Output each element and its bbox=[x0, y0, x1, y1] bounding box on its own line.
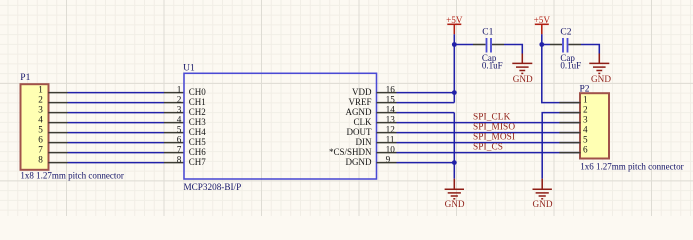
svg-text:VDD: VDD bbox=[352, 87, 372, 97]
power symbol +5V (rail 2) bbox=[534, 15, 551, 34]
svg-text:SPI_MISO: SPI_MISO bbox=[473, 122, 515, 132]
svg-text:5: 5 bbox=[583, 134, 588, 144]
svg-text:MCP3208-BI/P: MCP3208-BI/P bbox=[184, 182, 242, 192]
power symbol +5V (rail 1) bbox=[446, 15, 463, 34]
capacitor C1 pin 2 bbox=[492, 44, 504, 46]
wire VREF to +5V rail bbox=[397, 102, 455, 104]
svg-text:*CS/SHDN: *CS/SHDN bbox=[329, 147, 372, 157]
U1 pin 5 stub bbox=[164, 132, 184, 134]
svg-text:CH1: CH1 bbox=[189, 97, 206, 107]
svg-text:DOUT: DOUT bbox=[347, 127, 372, 137]
svg-text:0.1uF: 0.1uF bbox=[482, 61, 503, 71]
svg-text:3: 3 bbox=[583, 114, 588, 124]
svg-text:GND: GND bbox=[533, 199, 553, 209]
U1 pin 13 stub bbox=[377, 122, 397, 124]
wire C2 to GND bbox=[581, 45, 599, 54]
capacitor C1 plates bbox=[487, 38, 492, 53]
wire P1.4 to U1 CH3 bbox=[68, 122, 165, 124]
ground symbol (P2 pin2) bbox=[533, 179, 553, 210]
wire VDD to +5V rail bbox=[397, 92, 455, 94]
svg-text:CH6: CH6 bbox=[189, 147, 207, 157]
svg-text:C1: C1 bbox=[482, 28, 493, 38]
wire P1.2 to U1 CH1 bbox=[68, 102, 165, 104]
U1 pin 15 stub bbox=[377, 102, 397, 104]
wire rail1 to C1 bbox=[454, 44, 473, 46]
op chip U1 body bbox=[184, 73, 377, 179]
svg-text:GND: GND bbox=[591, 74, 611, 84]
svg-text:8: 8 bbox=[38, 154, 43, 164]
svg-text:CH7: CH7 bbox=[189, 157, 207, 167]
svg-text:7: 7 bbox=[38, 144, 43, 154]
svg-text:DIN: DIN bbox=[356, 137, 372, 147]
svg-text:8: 8 bbox=[177, 154, 182, 164]
wire rail2 to C2 bbox=[542, 44, 550, 46]
svg-text:CH3: CH3 bbox=[189, 117, 207, 127]
svg-text:GND: GND bbox=[445, 199, 465, 209]
svg-text:2: 2 bbox=[583, 104, 588, 114]
P1 pin 5 stub bbox=[48, 132, 67, 134]
wire AGND to ground rail bbox=[397, 112, 455, 114]
P1 pin 4 stub bbox=[48, 122, 67, 124]
P1 pin 1 stub bbox=[48, 92, 67, 94]
U1 pin 16 stub bbox=[377, 92, 397, 94]
svg-text:5: 5 bbox=[38, 124, 43, 134]
U1 pin 2 stub bbox=[164, 102, 184, 104]
P2 pin 1 stub bbox=[559, 102, 580, 104]
wire SPI_CLK net: U1.13 to P2.3 bbox=[397, 122, 580, 124]
wire SPI_MISO net: U1.12 to P2.4 bbox=[397, 132, 580, 134]
svg-text:4: 4 bbox=[177, 114, 182, 124]
svg-text:1: 1 bbox=[38, 84, 43, 94]
ground symbol (C2) bbox=[589, 54, 611, 85]
U1 pin 14 stub bbox=[377, 112, 397, 114]
capacitor C2 pin 1 bbox=[550, 44, 562, 46]
P2 pin 6 stub bbox=[559, 152, 580, 154]
svg-text:SPI_CS: SPI_CS bbox=[473, 142, 503, 152]
wire P1.6 to U1 CH5 bbox=[68, 142, 165, 144]
svg-text:CH2: CH2 bbox=[189, 107, 206, 117]
svg-text:C2: C2 bbox=[560, 28, 571, 38]
svg-text:1: 1 bbox=[177, 84, 182, 94]
junction node VDD bbox=[452, 90, 457, 95]
svg-text:2: 2 bbox=[177, 94, 182, 104]
wire P2 pin2 to ground bbox=[542, 113, 579, 179]
svg-text:3: 3 bbox=[177, 104, 182, 114]
wire P1.1 to U1 CH0 bbox=[68, 92, 165, 94]
svg-text:4: 4 bbox=[38, 114, 43, 124]
junction node DGND bbox=[452, 160, 457, 165]
P1 pin 2 stub bbox=[48, 102, 67, 104]
ground symbol (C1) bbox=[512, 54, 533, 85]
U1 pin 10 stub bbox=[377, 152, 397, 154]
capacitor C2 plates bbox=[563, 38, 568, 53]
svg-text:0.1uF: 0.1uF bbox=[560, 61, 581, 71]
U1 pin 6 stub bbox=[164, 142, 184, 144]
svg-text:6: 6 bbox=[583, 144, 588, 154]
svg-text:4: 4 bbox=[583, 124, 588, 134]
P1 pin 7 stub bbox=[48, 152, 67, 154]
wire P1.8 to U1 CH7 bbox=[68, 162, 165, 164]
capacitor C1 pin 1 bbox=[473, 44, 486, 46]
svg-text:GND: GND bbox=[513, 74, 533, 84]
capacitor C2 pin 2 bbox=[569, 44, 582, 46]
U1 pin 4 stub bbox=[164, 122, 184, 124]
svg-text:VREF: VREF bbox=[348, 97, 371, 107]
wire C1 to GND bbox=[504, 45, 522, 54]
P2 pin 5 stub bbox=[559, 142, 580, 144]
P2 pin 4 stub bbox=[559, 132, 580, 134]
connector P2 bbox=[580, 93, 609, 158]
P1 pin 6 stub bbox=[48, 142, 67, 144]
U1 pin 11 stub bbox=[377, 142, 397, 144]
junction node C2 tap bbox=[539, 42, 544, 47]
svg-text:P2: P2 bbox=[580, 85, 590, 95]
svg-text:5: 5 bbox=[177, 124, 182, 134]
ground symbol (U1 AGND/DGND) bbox=[445, 179, 465, 210]
wire SPI_MOSI net: U1.11 to P2.5 bbox=[397, 142, 580, 144]
wire P1.7 to U1 CH6 bbox=[68, 152, 165, 154]
svg-text:U1: U1 bbox=[183, 63, 195, 73]
svg-text:1: 1 bbox=[583, 94, 588, 104]
connector P1 bbox=[21, 84, 49, 170]
wire SPI_CS net: U1.10 to P2.6 bbox=[397, 152, 580, 154]
U1 pin 8 stub bbox=[164, 162, 184, 164]
P2 pin 2 stub bbox=[559, 112, 580, 114]
wire DGND to ground rail bbox=[397, 162, 455, 164]
wire P1.5 to U1 CH4 bbox=[68, 132, 165, 134]
svg-text:1x8 1.27mm pitch connector: 1x8 1.27mm pitch connector bbox=[20, 170, 123, 180]
U1 pin 3 stub bbox=[164, 112, 184, 114]
svg-text:CH0: CH0 bbox=[189, 87, 207, 97]
U1 pin 9 stub bbox=[377, 162, 397, 164]
P1 pin 8 stub bbox=[48, 162, 67, 164]
svg-text:3: 3 bbox=[38, 104, 43, 114]
svg-text:7: 7 bbox=[177, 144, 182, 154]
svg-text:CH5: CH5 bbox=[189, 137, 207, 147]
svg-text:CLK: CLK bbox=[354, 117, 373, 127]
P2 pin 3 stub bbox=[559, 122, 580, 124]
svg-text:P1: P1 bbox=[20, 73, 30, 83]
svg-text:2: 2 bbox=[38, 94, 43, 104]
svg-text:6: 6 bbox=[177, 134, 182, 144]
svg-text:SPI_CLK: SPI_CLK bbox=[473, 112, 511, 122]
wire AGND/DGND down to ground bbox=[453, 113, 455, 179]
svg-text:6: 6 bbox=[38, 134, 43, 144]
U1 pin 1 stub bbox=[164, 92, 184, 94]
svg-text:DGND: DGND bbox=[346, 157, 372, 167]
junction node C1 tap bbox=[452, 42, 457, 47]
U1 pin 12 stub bbox=[377, 132, 397, 134]
svg-text:AGND: AGND bbox=[346, 107, 372, 117]
svg-text:SPI_MOSI: SPI_MOSI bbox=[473, 132, 515, 142]
wire +5V rail down to VREF bbox=[453, 34, 455, 102]
P1 pin 3 stub bbox=[48, 112, 67, 114]
wire +5V rail2 down to P2 pin1 bbox=[542, 34, 580, 102]
svg-text:1x6 1.27mm pitch connector: 1x6 1.27mm pitch connector bbox=[580, 161, 683, 171]
wire P1.3 to U1 CH2 bbox=[68, 112, 165, 114]
svg-text:CH4: CH4 bbox=[189, 127, 207, 137]
U1 pin 7 stub bbox=[164, 152, 184, 154]
